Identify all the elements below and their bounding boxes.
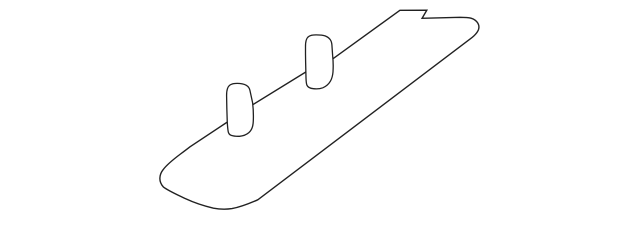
peg 1 — [227, 83, 254, 136]
trim panel outline — [160, 10, 479, 209]
peg 2 — [305, 35, 333, 89]
